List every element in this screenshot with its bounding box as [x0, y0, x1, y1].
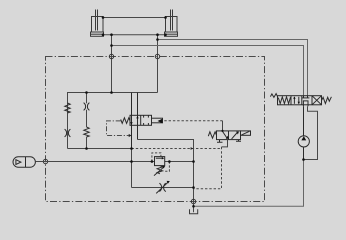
drain line arrow at tank column	[191, 147, 194, 150]
wire: tank column	[131, 149, 133, 188]
manifold enclosure (dash-dot boundary)	[46, 57, 265, 202]
valve V3 (2-pos, spring left, pilot box right)	[217, 131, 251, 140]
valve V1 spring	[121, 118, 130, 124]
wire: pump supply line	[35, 161, 193, 163]
reducing valve V2 body	[155, 157, 165, 166]
valve V3 flow diagonals	[223, 131, 239, 139]
reducing valve V2 spring + adjust arrow	[154, 166, 165, 176]
cylinder CYL1 (left, rod up)	[91, 10, 104, 37]
wire line A (upper long line to valve V4)	[158, 40, 308, 96]
wire V1: left cylinder drop line	[111, 35, 113, 93]
wire: relief branch stems	[68, 93, 87, 149]
valve V1 pilot triangle (hydraulic pilot)	[158, 119, 163, 123]
valve V3 spring	[208, 132, 216, 138]
tank T1	[190, 209, 198, 213]
relief branch RV1: spring then orifice	[65, 103, 71, 137]
relief branch RV2: orifice then spring	[84, 103, 90, 137]
valve V4 left spring cluster (spring in solenoid box)	[270, 94, 290, 104]
pilot line from V1 to valve V3 (dashed)	[164, 120, 222, 122]
valve V1 pilot sense line (dash-dot)	[107, 121, 129, 136]
wire: drop into valve V3	[222, 121, 224, 131]
valve V1 transition box ticks (dashed position)	[144, 115, 149, 125]
port node N2 on boundary	[155, 54, 159, 58]
cylinder CYL2 (right, rod up)	[165, 10, 178, 37]
port node N1 on boundary	[109, 54, 113, 58]
reducing valve V2 drain loop (dashed)	[163, 162, 169, 172]
wire: cylinder bottom interconnect	[104, 34, 165, 36]
valve V3 outlet elbow	[222, 140, 228, 147]
valve V3 tank line (dashed)	[194, 147, 222, 189]
wire: into tank	[193, 202, 195, 213]
port node N3 on boundary (pump inlet)	[43, 159, 47, 163]
wire: valve V1 right leg to tank column	[138, 140, 194, 202]
wire line B (lower long line to valve V4)	[112, 46, 304, 96]
port node N4 (tank port on boundary)	[191, 199, 195, 203]
wire: branch collector line	[68, 148, 132, 150]
wire: cylinder top interconnect	[103, 17, 166, 19]
wire: throttle line	[132, 187, 194, 189]
wire V2: right cylinder drop line	[157, 35, 159, 93]
valve V3 blocked port T2	[236, 140, 241, 142]
wire: valve V4 bypass leg	[304, 106, 318, 159]
valve V1 (pilot operated, black triangle) body	[130, 115, 163, 125]
pump/accumulator P1 (capsule)	[13, 157, 35, 167]
motor M1	[298, 106, 309, 159]
valve V4 centre box (blocked ports)	[302, 96, 310, 107]
valve V1 through-flow lines with arrows	[130, 93, 138, 149]
valve V4 right box X	[312, 96, 322, 105]
wire: return line	[194, 160, 304, 207]
variable throttle FC1	[156, 181, 170, 194]
reducing valve V2 pilot loop (dashed)	[152, 153, 161, 162]
directional valve V4 (3-position, right)	[278, 96, 322, 105]
valve V4 left box arrows	[293, 96, 300, 104]
valve V4 right spring	[322, 97, 332, 104]
wire H1: header inside manifold	[68, 93, 158, 149]
valve V3 blocked port T1	[217, 140, 223, 143]
pilot drain line (dashed) to valve V3	[132, 148, 222, 150]
